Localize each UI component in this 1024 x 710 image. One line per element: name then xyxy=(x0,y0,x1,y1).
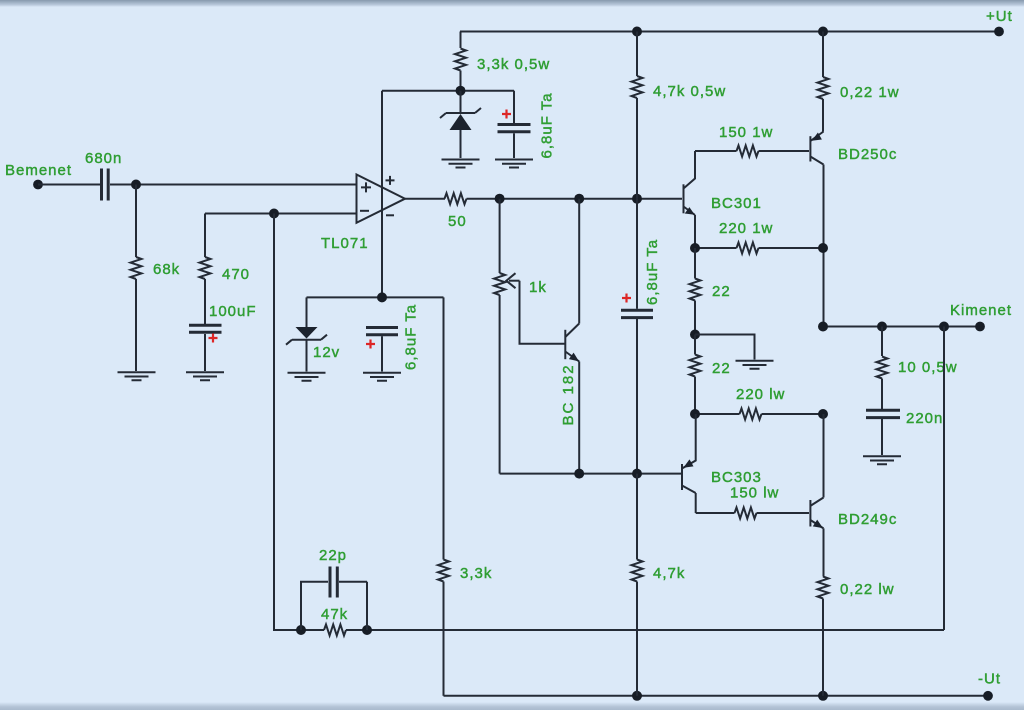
svg-text:+Ut: +Ut xyxy=(986,8,1013,25)
svg-text:6,8uF Ta: 6,8uF Ta xyxy=(644,239,661,305)
svg-text:1k: 1k xyxy=(529,279,547,296)
node input junction xyxy=(131,180,141,190)
node Bemenet input terminal xyxy=(33,180,43,190)
node feedback junction xyxy=(269,209,279,219)
svg-text:220n: 220n xyxy=(906,410,943,427)
resistor R 0,22 1w (bottom) xyxy=(818,577,895,696)
transistor Q BC182 npn xyxy=(560,199,579,474)
wire input to C680n xyxy=(38,184,100,186)
node bottom rail / 4.7k xyxy=(632,691,642,701)
wire mid junction to ground xyxy=(695,335,755,360)
node mid 22 junction xyxy=(690,330,700,340)
svg-text:0,22 1w: 0,22 1w xyxy=(840,84,900,101)
svg-text:3,3k 0,5w: 3,3k 0,5w xyxy=(477,56,550,73)
svg-text:12v: 12v xyxy=(313,344,340,361)
wire Kimenet output rail xyxy=(823,326,980,328)
transistor Q BD250c pnp xyxy=(810,132,897,327)
zener diode D2 12v xyxy=(286,297,340,371)
capacitor C 22p xyxy=(301,547,367,630)
resistor R 4,7k 0,5w (top) xyxy=(632,32,727,199)
wire 100uF to ground xyxy=(204,334,206,371)
svg-text:22p: 22p xyxy=(319,547,347,564)
node Kimenet/feedback junction xyxy=(939,322,949,332)
wire feedback vertical from inverting input xyxy=(273,214,275,631)
node 220 upper right xyxy=(818,243,828,253)
wire lower 220 row xyxy=(695,413,823,415)
svg-text:100uF: 100uF xyxy=(209,303,257,320)
op-amp U1 TL071 xyxy=(321,175,405,253)
resistor R 3,3k 0,5w xyxy=(455,49,550,91)
node Kimenet terminal xyxy=(975,322,985,332)
resistor R 4,7k (bottom) xyxy=(632,474,686,696)
svg-text:150 1w: 150 1w xyxy=(719,124,773,141)
potentiometer P 1k xyxy=(494,199,565,474)
wire feedback bottom run xyxy=(273,327,944,631)
svg-text:BC303: BC303 xyxy=(711,469,762,486)
resistor R 47k xyxy=(321,606,348,636)
ground under left 6,8uF xyxy=(363,373,401,381)
svg-text:0,22 lw: 0,22 lw xyxy=(840,581,895,598)
svg-text:6,8uF Ta: 6,8uF Ta xyxy=(539,92,556,158)
transistor Q BD249c npn xyxy=(810,414,897,577)
wire BC301 collector to BD250 base row xyxy=(695,150,809,152)
resistor R 0,22 1w (top) xyxy=(818,32,900,132)
svg-text:150 lw: 150 lw xyxy=(730,485,779,502)
svg-text:3,3k: 3,3k xyxy=(460,565,492,582)
capacitor C 220n xyxy=(866,410,943,455)
svg-text:BD249c: BD249c xyxy=(838,511,897,528)
svg-text:6,8uF Ta: 6,8uF Ta xyxy=(403,304,420,370)
svg-text:68k: 68k xyxy=(153,261,180,278)
ground under 12v zener xyxy=(288,373,326,381)
node V- junction xyxy=(377,292,387,302)
capacitor C 6,8uF Ta (top) xyxy=(498,91,556,159)
svg-text:-Ut: -Ut xyxy=(978,671,1001,688)
wire inverting input row xyxy=(205,213,357,215)
svg-text:220 lw: 220 lw xyxy=(736,386,785,403)
wire upper 220 row xyxy=(695,247,823,249)
node top rail / 4.7k xyxy=(632,27,642,37)
wire +Ut top rail xyxy=(460,31,999,33)
resistor R 68k xyxy=(131,185,181,372)
ground mid bias xyxy=(736,361,774,369)
ground under 220n xyxy=(863,456,901,464)
node Kimenet/10ohm junction xyxy=(877,322,887,332)
resistor R 10 0,5w xyxy=(877,327,958,410)
resistor R 22 (lower) xyxy=(690,335,731,415)
svg-text:4,7k 0,5w: 4,7k 0,5w xyxy=(653,83,726,100)
node 47k left xyxy=(296,625,306,635)
node 47k right xyxy=(362,625,372,635)
wire lower bias row xyxy=(500,473,681,475)
node Kimenet/BD junction xyxy=(818,322,828,332)
svg-text:BC 182: BC 182 xyxy=(560,363,577,425)
wire negative supply row xyxy=(307,296,444,298)
resistor R 22 (upper) xyxy=(690,248,731,335)
svg-text:BD250c: BD250c xyxy=(838,146,897,163)
node 220 upper left xyxy=(690,243,700,253)
wire op-amp supply vertical xyxy=(381,91,383,298)
wire -Ut bottom rail xyxy=(444,695,989,697)
ground under 68k xyxy=(118,372,156,380)
resistor R 470 xyxy=(200,214,251,325)
svg-text:22: 22 xyxy=(712,360,731,377)
node zener row junction xyxy=(456,86,466,96)
resistor R 3,3k (feedback leg) xyxy=(438,560,492,696)
svg-text:Bemenet: Bemenet xyxy=(5,162,72,179)
svg-text:50: 50 xyxy=(448,213,467,230)
svg-text:Kimenet: Kimenet xyxy=(950,302,1012,319)
wire op-amp output row xyxy=(405,198,682,200)
node +Ut terminal xyxy=(994,27,1004,37)
node top rail / 0.22 xyxy=(818,27,828,37)
svg-text:10 0,5w: 10 0,5w xyxy=(898,359,958,376)
node output/1k junction xyxy=(495,194,505,204)
wire right branch down from V- row xyxy=(443,297,445,559)
svg-text:22: 22 xyxy=(712,283,731,300)
transistor Q BC301 npn xyxy=(684,151,762,248)
resistor R 220 1w (lower) xyxy=(736,386,785,420)
svg-text:220 1w: 220 1w xyxy=(719,220,773,237)
resistor R 50 xyxy=(445,193,467,230)
capacitor C 6,8uF Ta (left) xyxy=(366,304,420,372)
svg-text:BC301: BC301 xyxy=(711,195,762,212)
wire C680n to op-amp + input xyxy=(110,184,357,186)
capacitor C 100uF polarized xyxy=(189,303,257,343)
svg-text:4,7k: 4,7k xyxy=(653,565,685,582)
svg-text:680n: 680n xyxy=(85,150,122,167)
svg-text:47k: 47k xyxy=(321,606,348,623)
svg-text:TL071: TL071 xyxy=(321,235,369,252)
node -Ut terminal xyxy=(983,691,993,701)
node 220 lower right xyxy=(818,409,828,419)
node BC182 collector junction xyxy=(574,194,584,204)
capacitor C 680n xyxy=(85,150,122,201)
zener diode D1 xyxy=(440,91,481,158)
capacitor C 6,8uF Ta (middle) xyxy=(621,199,661,474)
node BC182 emitter junction xyxy=(574,469,584,479)
ground under 100uF xyxy=(186,372,224,380)
svg-text:470: 470 xyxy=(222,266,250,283)
resistor R 150 1w (top) xyxy=(719,124,773,157)
wire zener node row xyxy=(382,90,514,92)
ground under zener D1 xyxy=(442,160,480,168)
node cap/4.7k lower junction xyxy=(632,469,642,479)
node 4.7k/cap junction xyxy=(632,194,642,204)
node 220 lower left xyxy=(690,409,700,419)
resistor R 220 1w (upper) xyxy=(719,220,773,254)
ground under top 6,8uF xyxy=(495,160,533,168)
transistor Q BC303 pnp xyxy=(682,414,762,513)
wire top rail to 3.3k xyxy=(460,32,462,49)
wire BC303 collector to BD249 base row xyxy=(696,512,809,514)
resistor R 150 1w (bottom) xyxy=(730,485,779,519)
node bottom rail / 0.22 xyxy=(818,691,828,701)
